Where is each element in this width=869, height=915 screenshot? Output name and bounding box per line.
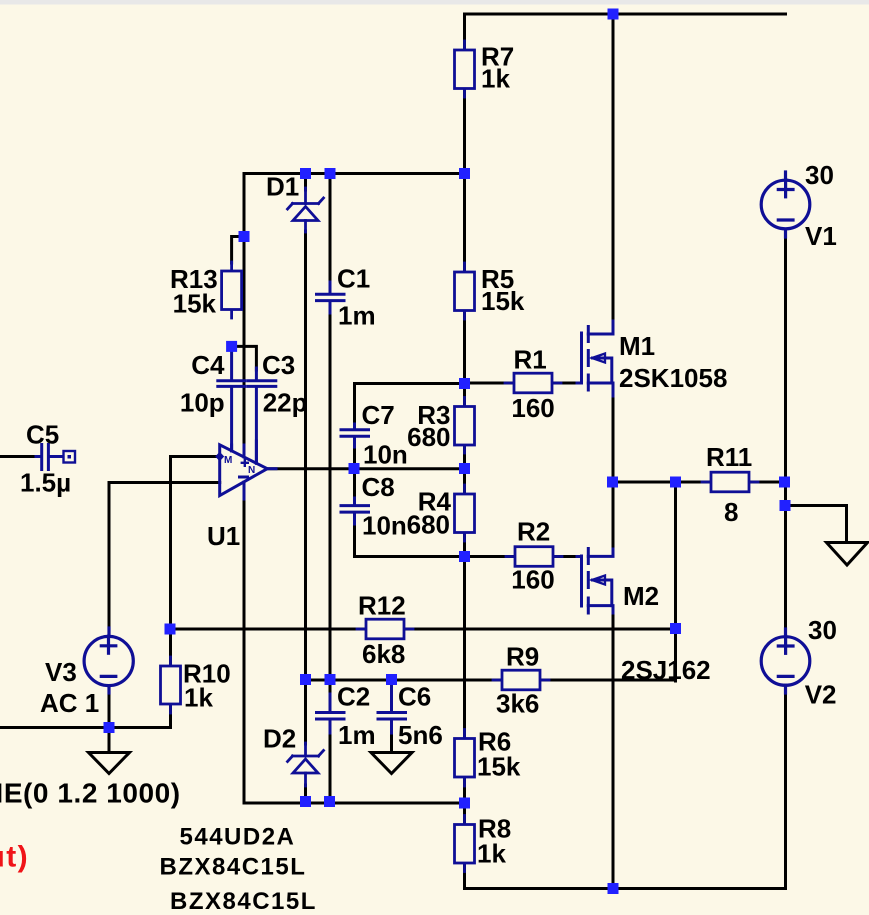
svg-text:2SK1058: 2SK1058 xyxy=(619,363,727,393)
capacitor C4 xyxy=(218,348,246,451)
svg-text:8: 8 xyxy=(724,497,738,527)
op-amp U1 xyxy=(220,441,268,499)
junction M1 source y482 xyxy=(607,477,618,488)
wire x464 node557 to R6 xyxy=(463,557,466,739)
junction ground branch y505 xyxy=(780,500,791,511)
svg-text:1k: 1k xyxy=(477,839,506,869)
wire R7 bottom to R5 top xyxy=(463,89,466,273)
svg-text:M2: M2 xyxy=(623,581,659,611)
wire C7-C8 mid rail xyxy=(353,447,356,498)
junction C2 bottom xyxy=(324,796,335,807)
svg-text:C8: C8 xyxy=(362,472,395,502)
svg-text:C3: C3 xyxy=(262,350,295,380)
wire M1 source to M2 source xyxy=(612,396,615,549)
wire R12 row y629 xyxy=(170,628,676,631)
junction R13 top xyxy=(239,231,250,242)
junction R13 bottom / C4 xyxy=(226,341,237,352)
wire C3 top stub xyxy=(232,346,257,370)
wire -input horizontal xyxy=(109,481,220,484)
wire R7 top lead xyxy=(463,14,466,50)
svg-text:C6: C6 xyxy=(398,682,431,712)
MOSFET M1 xyxy=(577,321,613,396)
svg-text:D2: D2 xyxy=(263,724,296,754)
wire x464 R4 bottom xyxy=(463,533,466,557)
wire x464 R8 bottom xyxy=(463,863,466,889)
junction bottom bus M2 xyxy=(608,883,619,894)
resistor R7 xyxy=(455,41,475,97)
svg-text:15k: 15k xyxy=(481,286,525,316)
svg-text:3k6: 3k6 xyxy=(496,689,539,719)
junction x675 y482 xyxy=(670,477,681,488)
junction C2 top xyxy=(325,674,336,685)
wire x464 R5-R3 xyxy=(463,311,466,407)
svg-text:ut): ut) xyxy=(0,841,29,874)
junction y173 R7 xyxy=(459,168,470,179)
svg-text:N: N xyxy=(248,465,255,476)
port square at C5 xyxy=(64,451,76,463)
resistor R13 xyxy=(222,262,242,318)
junction y173 D1 xyxy=(300,168,311,179)
wire V2 bottom lead xyxy=(784,685,787,888)
capacitor C8 xyxy=(341,498,369,524)
wire V3 bottom lead xyxy=(108,686,111,728)
wire R1 row xyxy=(465,382,579,385)
wire D1 top lead xyxy=(304,174,307,191)
svg-text:10p: 10p xyxy=(180,388,225,418)
svg-text:160: 160 xyxy=(511,393,554,423)
junction R3/R4 mid xyxy=(459,463,470,474)
junction V rail y482 xyxy=(779,477,790,488)
svg-text:V3: V3 xyxy=(45,657,77,687)
wire y173 rail xyxy=(244,172,465,175)
wire R9 row y680 xyxy=(306,679,676,682)
wire C8/R4 bottom rail xyxy=(355,555,465,558)
svg-text:10n: 10n xyxy=(363,440,408,470)
wire x244 upper vertical (comp node) xyxy=(243,174,246,446)
resistor R2 xyxy=(506,547,562,567)
svg-text:AC 1: AC 1 xyxy=(40,688,99,718)
svg-text:2SJ162: 2SJ162 xyxy=(621,655,711,685)
junction node R2/R4 bottom xyxy=(459,551,470,562)
svg-text:C1: C1 xyxy=(337,264,370,294)
wire output bus y482 xyxy=(613,481,786,484)
svg-text:SINE(0 1.2 1000): SINE(0 1.2 1000) xyxy=(0,778,181,809)
svg-text:M1: M1 xyxy=(619,331,655,361)
svg-text:15k: 15k xyxy=(477,752,521,782)
svg-text:680: 680 xyxy=(407,422,450,452)
junction +input/R10/R12 xyxy=(165,624,176,635)
wire C7 left rail upper xyxy=(353,384,356,425)
wire x464 R6 to R8 xyxy=(463,777,466,825)
wire x464 R3-R4 xyxy=(463,445,466,494)
svg-text:5n6: 5n6 xyxy=(398,720,443,750)
wire D1 anode to D2 cathode xyxy=(304,231,307,744)
wire R10 bottom lead xyxy=(169,704,172,728)
resistor R10 xyxy=(161,657,181,713)
wire C5 left lead xyxy=(0,455,37,458)
svg-text:R2: R2 xyxy=(517,517,550,547)
junction R6/R8 y803 xyxy=(459,798,470,809)
svg-text:544UD2A: 544UD2A xyxy=(180,824,296,851)
svg-text:1k: 1k xyxy=(481,64,510,94)
capacitor C6 xyxy=(378,680,406,733)
svg-text:R12: R12 xyxy=(358,591,406,621)
svg-text:15k: 15k xyxy=(173,289,217,319)
svg-text:C2: C2 xyxy=(337,682,370,712)
window top strip xyxy=(0,0,869,5)
svg-text:BZX84C15L: BZX84C15L xyxy=(160,854,307,881)
svg-text:C5: C5 xyxy=(26,420,59,450)
zener diode D1 xyxy=(288,188,324,232)
resistor R12 xyxy=(357,619,413,639)
resistor R8 xyxy=(455,816,475,872)
wire V3 ground lead xyxy=(108,728,111,753)
op-amp output stub xyxy=(268,467,277,470)
svg-text:C7: C7 xyxy=(362,400,395,430)
voltage source V1 xyxy=(761,172,810,237)
wire C8 left rail lower xyxy=(353,524,356,557)
svg-text:BZX84C15L: BZX84C15L xyxy=(170,888,317,915)
junction D2 bottom xyxy=(300,796,311,807)
svg-text:10n: 10n xyxy=(362,511,407,541)
capacitor C3 xyxy=(248,368,275,463)
svg-text:R9: R9 xyxy=(506,642,539,672)
wire C1 bottom to C2 top xyxy=(329,313,332,698)
ground symbol C6 xyxy=(371,753,412,774)
resistor R6 xyxy=(455,730,475,787)
svg-text:U1: U1 xyxy=(207,521,240,551)
wire opamp output to node xyxy=(268,467,465,470)
junction y173 C1 xyxy=(325,168,336,179)
junction C6 top xyxy=(386,674,397,685)
wire opamp bottom pin vertical xyxy=(243,499,246,803)
wire bottom bus y888 xyxy=(465,887,786,890)
wire C1 top lead xyxy=(329,174,332,283)
svg-text:M: M xyxy=(224,455,232,466)
resistor R1 xyxy=(505,373,561,393)
svg-text:1.5µ: 1.5µ xyxy=(20,468,71,498)
voltage source V3 xyxy=(84,628,133,693)
svg-text:C4: C4 xyxy=(191,350,225,380)
resistor R3 xyxy=(455,398,475,454)
capacitor C2 xyxy=(317,694,345,733)
svg-text:30: 30 xyxy=(808,615,837,645)
junction node R1/R3 xyxy=(459,378,470,389)
wire left bottom bus y727 xyxy=(0,726,171,729)
wire C2 bottom lead xyxy=(329,733,332,802)
wire C6 ground lead xyxy=(390,733,393,753)
MOSFET M2 xyxy=(577,549,613,614)
svg-text:680: 680 xyxy=(407,510,450,540)
resistor R9 xyxy=(493,670,549,690)
wire x613 top to M1 xyxy=(612,14,615,322)
op-amp input diamond xyxy=(215,452,224,461)
svg-text:D1: D1 xyxy=(266,172,299,202)
wire D2 bottom lead xyxy=(304,785,307,802)
zener diode D2 xyxy=(288,743,324,786)
capacitor C5 xyxy=(36,445,63,470)
svg-text:R11: R11 xyxy=(706,442,752,472)
svg-text:R1: R1 xyxy=(514,345,547,375)
junction D-chain y679 xyxy=(300,674,311,685)
svg-text:1m: 1m xyxy=(338,301,376,331)
wire bottom-left bus y803 xyxy=(244,802,465,805)
junction R12 right xyxy=(670,623,681,634)
wire right ground branch xyxy=(785,506,847,543)
ground symbol output xyxy=(827,543,868,566)
svg-text:22p: 22p xyxy=(263,388,308,418)
svg-text:160: 160 xyxy=(511,565,554,595)
junction top rail xyxy=(608,9,619,20)
junction C7/C8 mid xyxy=(349,463,360,474)
svg-text:1m: 1m xyxy=(338,720,376,750)
wire +input vertical to R10 xyxy=(169,457,172,667)
resistor R4 xyxy=(455,485,475,541)
resistor R11 xyxy=(702,472,758,492)
svg-text:V2: V2 xyxy=(805,680,837,710)
wire x675 vertical xyxy=(674,482,677,681)
wire top rail xyxy=(465,13,786,16)
wire V1 bottom to V2 top xyxy=(784,229,787,637)
wire C7/R3 top rail xyxy=(355,382,465,385)
resistor R5 xyxy=(455,263,475,319)
wire +input horizontal xyxy=(171,455,220,458)
wire R13 top stub xyxy=(232,237,244,264)
capacitor C1 xyxy=(317,282,345,313)
voltage source V2 xyxy=(761,629,810,693)
wire -input vertical to V3 xyxy=(108,483,111,637)
wire R2 row xyxy=(465,555,579,558)
svg-text:6k8: 6k8 xyxy=(362,639,405,669)
ground symbol V3 xyxy=(89,753,130,774)
svg-text:30: 30 xyxy=(805,160,834,190)
svg-text:1k: 1k xyxy=(184,683,213,713)
wire M2 drain to bottom bus xyxy=(612,613,615,889)
svg-text:V1: V1 xyxy=(805,221,837,251)
capacitor C7 xyxy=(341,424,369,447)
junction V3 bottom xyxy=(104,722,115,733)
